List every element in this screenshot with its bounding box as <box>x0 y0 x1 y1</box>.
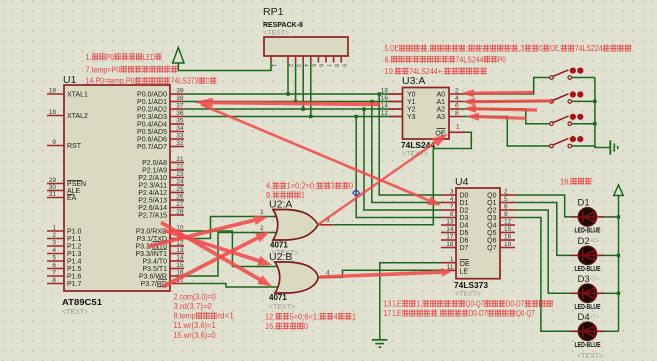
svg-text:12.: 12. <box>265 313 275 322</box>
wire switch2 to common <box>572 100 595 102</box>
power VCC arrow symbol <box>173 48 184 64</box>
svg-text:7.temp=P0: 7.temp=P0 <box>86 66 121 75</box>
svg-text:14.P0=temp,P0: 14.P0=temp,P0 <box>86 77 135 86</box>
svg-text:34: 34 <box>176 125 184 132</box>
svg-text:LED: LED <box>143 53 155 62</box>
svg-text:8: 8 <box>455 110 459 117</box>
switch SW2 <box>550 100 554 104</box>
svg-text:RP1: RP1 <box>263 6 284 18</box>
svg-text:18.: 18. <box>560 177 570 186</box>
svg-text:32: 32 <box>176 140 184 147</box>
svg-text:15.wr(3.6)=0: 15.wr(3.6)=0 <box>174 331 217 340</box>
svg-text:74LS244+,: 74LS244+, <box>409 67 444 76</box>
svg-text:A0: A0 <box>436 92 445 99</box>
svg-text:5: 5 <box>52 255 56 262</box>
svg-text:P1.6: P1.6 <box>67 274 82 281</box>
svg-text:<T>: <T> <box>590 314 599 320</box>
wire P0.3 to U3 Y3 <box>184 116 436 118</box>
svg-text:12: 12 <box>504 219 512 226</box>
svg-text:D2: D2 <box>460 208 469 215</box>
svg-text:D: D <box>206 77 210 86</box>
U4 OE pin 1 and LE pin 11 <box>441 262 456 264</box>
svg-text:,: , <box>438 309 440 318</box>
svg-text:<TEXT>: <TEXT> <box>62 309 88 316</box>
svg-text:16: 16 <box>381 95 389 102</box>
arrow to P0.1 pin38 <box>194 98 380 108</box>
svg-text:U2:B: U2:B <box>269 251 292 263</box>
svg-text:22: 22 <box>176 164 184 171</box>
ground symbol below U4 <box>372 339 388 341</box>
svg-text:30: 30 <box>49 184 57 191</box>
svg-text:RST: RST <box>67 143 82 150</box>
wire P0.1 to U3 Y1 <box>184 101 436 103</box>
svg-text:P1.5: P1.5 <box>67 266 82 273</box>
svg-text:10.: 10. <box>385 67 395 76</box>
svg-text:P3.3/INT1: P3.3/INT1 <box>135 251 167 258</box>
svg-text:P1.3: P1.3 <box>67 251 82 258</box>
svg-text:13: 13 <box>446 219 454 226</box>
svg-text:2: 2 <box>260 225 264 232</box>
svg-text:OE: OE <box>460 261 470 268</box>
svg-text:<T>: <T> <box>590 238 599 244</box>
svg-text:U3:A: U3:A <box>402 75 425 87</box>
svg-text:13: 13 <box>176 247 184 254</box>
U3 output pins A0-A3 <box>449 93 462 95</box>
svg-text:,3: ,3 <box>518 44 525 53</box>
svg-text:74LS373: 74LS373 <box>171 77 199 86</box>
svg-text:25: 25 <box>176 186 184 193</box>
svg-text:74LS224: 74LS224 <box>575 44 603 53</box>
svg-text:2: 2 <box>52 232 56 239</box>
svg-text:U1: U1 <box>63 74 77 86</box>
wire switch1 to common <box>572 77 595 79</box>
node marker blue diamond <box>353 190 360 197</box>
svg-text:6: 6 <box>318 64 324 67</box>
svg-text:D4: D4 <box>578 312 590 323</box>
svg-text:P0.6/AD6: P0.6/AD6 <box>137 137 167 144</box>
svg-text:23: 23 <box>176 171 184 178</box>
U4 Q0-Q7 output pins <box>500 194 515 196</box>
svg-text:P0.0/AD0: P0.0/AD0 <box>137 92 167 99</box>
svg-text:P1.4: P1.4 <box>67 259 82 266</box>
svg-text:4: 4 <box>334 313 338 322</box>
U1 left pins XTAL1 XTAL2 RST PSEN ALE EA P1.0-P1.7 <box>47 93 64 95</box>
svg-text:17: 17 <box>446 234 454 241</box>
svg-text:2: 2 <box>455 88 459 95</box>
LED D2 LED-BLUE <box>571 254 579 256</box>
wire U4 Q0 to LED D1 <box>515 195 571 217</box>
svg-text:D3: D3 <box>578 274 590 285</box>
svg-text:9: 9 <box>52 139 56 146</box>
svg-text:4: 4 <box>450 196 454 203</box>
svg-text:LED-BLUE: LED-BLUE <box>575 342 601 349</box>
wire switch common rail <box>595 78 610 148</box>
svg-text:D1: D1 <box>460 200 469 207</box>
svg-text:P0.7/AD7: P0.7/AD7 <box>137 144 167 151</box>
svg-text:7: 7 <box>52 270 56 277</box>
wire U2:A out to U3 OE <box>334 132 472 225</box>
svg-text:OE,: OE, <box>550 44 560 53</box>
arrow to U2:B pin6 <box>160 221 272 287</box>
svg-text:D0-D7: D0-D7 <box>469 309 488 318</box>
wire LED D2 cathode to VCC rail <box>604 254 619 256</box>
wire VCC to RP1 pin1 <box>178 63 271 71</box>
svg-text:LE: LE <box>460 269 469 276</box>
svg-text:Y0: Y0 <box>407 92 416 99</box>
wire U2:B out to U4 LE <box>333 270 441 277</box>
svg-text:P1.0: P1.0 <box>67 229 82 236</box>
OR gate U2:B 4071 <box>275 262 318 293</box>
svg-text:0: 0 <box>349 182 353 191</box>
power arrow above LEDs <box>614 185 624 196</box>
svg-text:3.rd(3.7)=0: 3.rd(3.7)=0 <box>174 302 213 311</box>
svg-text:D1: D1 <box>578 197 590 208</box>
wire switch4 to common <box>572 145 595 147</box>
svg-text:P1.2: P1.2 <box>67 244 82 251</box>
wires RP1 pins 2-5 pulldowns to P0 bus <box>287 63 289 95</box>
svg-text:1: 1 <box>456 124 460 131</box>
svg-text:U2:A: U2:A <box>269 199 292 211</box>
svg-text:8: 8 <box>333 64 339 67</box>
svg-text:18: 18 <box>49 109 57 116</box>
svg-text:XTAL2: XTAL2 <box>67 113 88 120</box>
wire switch3 to common <box>572 123 595 125</box>
arrow P3.0 to U2:B pin5 <box>163 229 272 266</box>
RP1 pins 1-9 <box>270 56 272 63</box>
svg-text:13.LE: 13.LE <box>384 300 402 309</box>
svg-text:Q3: Q3 <box>487 215 496 222</box>
svg-text:19: 19 <box>504 241 512 248</box>
svg-text:<TEXT>: <TEXT> <box>455 291 481 298</box>
wire P3.6 to U2:A pin2 <box>184 233 283 277</box>
svg-text:7: 7 <box>325 64 331 67</box>
svg-text:9: 9 <box>340 64 346 67</box>
svg-text:P2.3/A11: P2.3/A11 <box>139 183 167 190</box>
svg-text:8: 8 <box>52 277 56 284</box>
svg-text:Q7: Q7 <box>487 245 496 252</box>
svg-text:1: 1 <box>260 209 264 216</box>
svg-text:14: 14 <box>176 255 184 262</box>
svg-text:RESPACK-8: RESPACK-8 <box>263 22 303 29</box>
svg-text:LED-BLUE: LED-BLUE <box>575 227 601 234</box>
wire U3 A0 to switch1 <box>462 78 550 95</box>
svg-text:5: 5 <box>504 196 508 203</box>
svg-text:EA: EA <box>67 195 77 202</box>
wire U4 OE to ground <box>380 263 441 339</box>
wire LED D1 cathode to VCC rail <box>604 216 619 218</box>
svg-text:21: 21 <box>176 156 184 163</box>
ground symbol right of switches <box>609 140 611 154</box>
svg-text:9: 9 <box>504 211 508 218</box>
svg-text:3: 3 <box>450 189 454 196</box>
LED D3 LED-BLUE <box>571 292 579 294</box>
svg-text:P2.0/A8: P2.0/A8 <box>142 160 167 167</box>
svg-text:12: 12 <box>381 110 389 117</box>
svg-text:Q0: Q0 <box>487 193 496 200</box>
svg-text:P0: P0 <box>106 53 114 62</box>
svg-text:28: 28 <box>176 209 184 216</box>
svg-text:P3.5/T1: P3.5/T1 <box>142 266 167 273</box>
svg-text:6: 6 <box>455 103 459 110</box>
svg-text:1=0;2=0;: 1=0;2=0; <box>287 182 317 191</box>
svg-text:74LS244: 74LS244 <box>456 56 484 65</box>
svg-text:1.: 1. <box>86 53 92 62</box>
svg-text:P3.0/RXD: P3.0/RXD <box>136 229 167 236</box>
svg-text:6.: 6. <box>385 56 391 65</box>
U2:A output pin3 stub <box>318 224 334 226</box>
svg-text:D6: D6 <box>460 238 469 245</box>
svg-text:P2.1/A9: P2.1/A9 <box>142 168 167 175</box>
svg-text:Q0-Q7: Q0-Q7 <box>516 309 535 318</box>
svg-text:LED-BLUE: LED-BLUE <box>575 304 601 311</box>
svg-text:Q1: Q1 <box>487 200 496 207</box>
svg-text:;: ; <box>466 44 468 53</box>
svg-text:74LS373: 74LS373 <box>454 281 489 290</box>
svg-text:P1.7: P1.7 <box>67 281 82 288</box>
resistor pack RP1 RESPACK-8 <box>264 37 348 56</box>
arrow U2:A out to U3 OE <box>317 134 448 226</box>
svg-text:26: 26 <box>176 194 184 201</box>
U1 right pins P0 P2 P3 <box>170 93 184 95</box>
OR gate U2:A 4071 <box>273 210 318 241</box>
svg-text:Y1: Y1 <box>407 99 416 106</box>
junctions U4 feed taps <box>378 92 381 95</box>
switch SW4 <box>550 144 554 148</box>
svg-text:8.temp: 8.temp <box>174 312 197 321</box>
svg-text:18: 18 <box>381 88 389 95</box>
svg-text:D7: D7 <box>460 245 469 252</box>
svg-text:4: 4 <box>455 95 459 102</box>
arrow switch3 to A2 <box>463 105 537 113</box>
svg-text:D4: D4 <box>460 223 469 230</box>
svg-text:P0.4/AD4: P0.4/AD4 <box>137 122 167 129</box>
svg-text:P2.7/A15: P2.7/A15 <box>138 213 167 220</box>
svg-text:D0: D0 <box>460 193 469 200</box>
U4 D0-D7 input pins <box>441 194 456 196</box>
svg-text:9.: 9. <box>266 191 272 200</box>
wire U3 A2 to switch3 <box>462 109 550 124</box>
svg-text:<TEXT>: <TEXT> <box>577 353 603 360</box>
svg-text:18: 18 <box>446 241 454 248</box>
svg-text:AT89C51: AT89C51 <box>62 298 103 307</box>
svg-text:Y2: Y2 <box>407 107 416 114</box>
svg-text:A1: A1 <box>436 99 445 106</box>
svg-text:0: 0 <box>304 322 308 331</box>
svg-text:<T>: <T> <box>590 276 599 282</box>
svg-text:,: , <box>428 44 430 53</box>
junctions RP1 drops <box>286 92 289 95</box>
wire LED D4 cathode to VCC rail <box>604 330 619 332</box>
svg-text:A2: A2 <box>436 107 445 114</box>
svg-text:4.: 4. <box>266 182 272 191</box>
svg-text:33: 33 <box>176 133 184 140</box>
wire P0.2 to U3 Y2 <box>184 108 436 110</box>
svg-text:1: 1 <box>450 256 454 263</box>
svg-text:5=0;6=1;: 5=0;6=1; <box>290 313 320 322</box>
svg-text:6: 6 <box>504 204 508 211</box>
arrow switch2 to A1 <box>462 98 552 106</box>
svg-text:3: 3 <box>52 240 56 247</box>
svg-text:36: 36 <box>176 110 184 117</box>
arrow U2:B out to U4 LE <box>320 268 452 279</box>
svg-text:Q6: Q6 <box>487 238 496 245</box>
svg-text:P0.5/AD5: P0.5/AD5 <box>137 129 167 136</box>
U2:B output pin4 stub <box>318 276 333 278</box>
wire P0.0 to U3 Y0 <box>184 93 436 95</box>
LED D1 LED-BLUE <box>571 216 579 218</box>
svg-text:D0-D7: D0-D7 <box>506 300 525 309</box>
svg-text:1: 1 <box>352 313 356 322</box>
svg-text:16.: 16. <box>265 322 275 331</box>
svg-text:P0.2/AD2: P0.2/AD2 <box>137 107 167 114</box>
wire LED D3 cathode to VCC rail <box>604 292 619 294</box>
svg-text:2.com(3.0)=0: 2.com(3.0)=0 <box>174 293 217 302</box>
svg-text:P0: P0 <box>498 56 506 65</box>
svg-text:15: 15 <box>176 262 184 269</box>
svg-text:P1.1: P1.1 <box>67 236 82 243</box>
svg-text:27: 27 <box>176 201 184 208</box>
U1 AT89C51 microcontroller body <box>64 85 170 291</box>
svg-text:P2.2/A10: P2.2/A10 <box>138 175 167 182</box>
latch U4 74LS373 body <box>456 188 500 279</box>
svg-text:1: 1 <box>301 191 305 200</box>
switch SW3 <box>550 122 554 126</box>
svg-text:A3: A3 <box>436 114 445 121</box>
svg-text:3: 3 <box>331 182 335 191</box>
switch SW1 <box>550 76 554 80</box>
U3 input pins Y0-Y3 <box>389 93 403 95</box>
svg-text:5.OE: 5.OE <box>385 44 399 53</box>
svg-text:Q4: Q4 <box>487 223 496 230</box>
wire U3 A1 to switch2 <box>462 100 550 102</box>
svg-text:39: 39 <box>176 88 184 95</box>
svg-text:P3.4/T0: P3.4/T0 <box>142 259 167 266</box>
svg-text:0: 0 <box>539 44 543 53</box>
svg-text:4: 4 <box>52 247 56 254</box>
arrow to U2:A pin1 <box>148 215 269 248</box>
svg-text:Q2: Q2 <box>487 208 496 215</box>
wire P3.1 to U2:A pin1 <box>184 217 283 239</box>
wires P0 bus down to U4 D0-D3 <box>379 94 441 195</box>
wire P3.7 to U2:B pin6 <box>184 284 283 288</box>
arrow P3.7 to U2:A pin2 <box>162 232 270 289</box>
svg-text:Q0-Q7: Q0-Q7 <box>466 300 485 309</box>
svg-text:D5: D5 <box>460 230 469 237</box>
svg-text:P2.4/A12: P2.4/A12 <box>138 190 167 197</box>
svg-text:P2.5/A13: P2.5/A13 <box>138 198 167 205</box>
svg-text:1,: 1, <box>416 300 422 309</box>
svg-text:U4: U4 <box>455 176 469 188</box>
svg-text:LED-BLUE: LED-BLUE <box>575 266 601 273</box>
svg-text:16: 16 <box>504 234 512 241</box>
svg-text:8: 8 <box>450 211 454 218</box>
buffer U3:A 74LS244 body <box>403 88 450 140</box>
svg-text:2: 2 <box>504 189 508 196</box>
arrow switch1 to A0 <box>461 89 533 97</box>
arrow P0.1 to U4 D2 <box>201 103 442 205</box>
svg-text:P2.6/A14: P2.6/A14 <box>138 205 167 212</box>
wire U4 Q2 to LED D3 <box>515 210 571 293</box>
svg-text:D3: D3 <box>460 215 469 222</box>
svg-text:7: 7 <box>450 204 454 211</box>
svg-text:29: 29 <box>49 177 57 184</box>
svg-text:Q5: Q5 <box>487 230 496 237</box>
wire U4 Q3 to LED D4 <box>515 218 571 332</box>
svg-text:<TEXT>: <TEXT> <box>263 30 289 37</box>
svg-text:<TEXT>: <TEXT> <box>269 304 295 311</box>
svg-text:31: 31 <box>49 191 57 198</box>
svg-text:4071: 4071 <box>270 241 288 250</box>
svg-text:17.LE: 17.LE <box>384 309 402 318</box>
svg-text:19: 19 <box>49 88 57 95</box>
svg-text:37: 37 <box>176 103 184 110</box>
svg-text:rd=1: rd=1 <box>217 312 234 321</box>
svg-text:14: 14 <box>381 103 389 110</box>
svg-text:14: 14 <box>446 226 454 233</box>
svg-text:PSEN: PSEN <box>67 181 86 188</box>
svg-text:6: 6 <box>52 262 56 269</box>
arrow switch4 to A3 <box>466 113 526 121</box>
svg-text:XTAL1: XTAL1 <box>67 92 88 99</box>
svg-text:4071: 4071 <box>269 293 287 302</box>
svg-text:24: 24 <box>176 179 184 186</box>
svg-text:38: 38 <box>176 95 184 102</box>
svg-text:P0.1/AD1: P0.1/AD1 <box>137 99 167 106</box>
wire U4 Q1 to LED D2 <box>515 203 571 256</box>
svg-text:11: 11 <box>447 264 454 271</box>
svg-text:1: 1 <box>52 225 56 232</box>
svg-text:P0.3/AD3: P0.3/AD3 <box>137 114 167 121</box>
svg-text:11.wr(3.6)=1: 11.wr(3.6)=1 <box>174 321 217 330</box>
U3 OE pin 1 <box>449 131 465 133</box>
svg-text:15: 15 <box>504 226 512 233</box>
wire P3.0 to U2:B pin5 <box>184 231 283 267</box>
svg-text:D2: D2 <box>578 236 590 247</box>
wire U3 A3 to switch4 <box>462 117 550 147</box>
svg-text:35: 35 <box>176 118 184 125</box>
LED D4 LED-BLUE <box>571 330 579 332</box>
wire LED common rail <box>618 196 620 331</box>
svg-text:Y3: Y3 <box>407 114 416 121</box>
